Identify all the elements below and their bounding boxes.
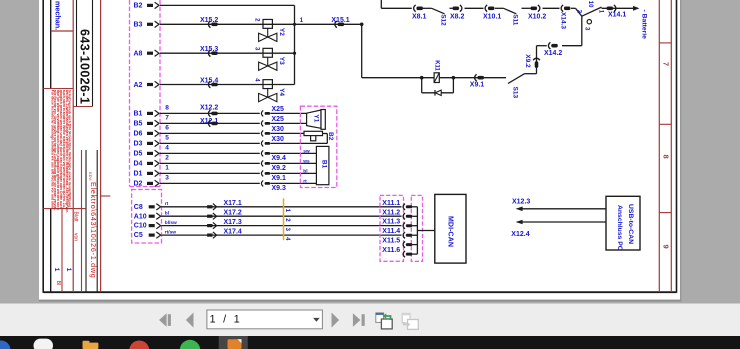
svg-text:643-10026-1: 643-10026-1 [77,29,91,104]
wire C10 row [162,225,402,227]
solenoid valve Y2 [263,19,272,28]
svg-text:D1: D1 [134,171,143,178]
taskbar [0,336,740,349]
svg-text:rt/sw: rt/sw [165,230,176,236]
svg-text:Y3: Y3 [278,57,285,65]
svg-text:D4: D4 [134,161,143,168]
svg-text:C8: C8 [134,204,143,211]
svg-text:X9.2: X9.2 [272,165,287,172]
svg-text:S11: S11 [512,14,519,26]
next page button [332,313,340,328]
svg-text:X9.1: X9.1 [470,82,485,89]
connector X17.4 [207,234,212,237]
svg-text:X8.1: X8.1 [412,14,427,21]
svg-text:Schutzvermerk nach DIN 34 beac: Schutzvermerk nach DIN 34 beachten. Weit… [68,90,72,208]
node diode right [452,76,456,80]
taskbar red app icon [129,341,149,349]
connector X17.2 [207,215,212,218]
svg-text:EDV:: EDV: [88,172,93,181]
svg-text:X30: X30 [272,136,285,143]
taskbar blue app icon [0,341,11,349]
svg-text:C5: C5 [134,232,143,239]
svg-text:1: 1 [165,164,169,171]
svg-text:A2: A2 [134,82,143,89]
toolbar background [0,304,740,337]
wire D3 row to buzzer [270,142,327,144]
wire C5 row [162,234,402,236]
svg-text:mechan.: mechan. [53,1,62,30]
dashed box X11 labels [380,195,404,261]
svg-text:B2: B2 [134,3,143,10]
svg-text:X11.5: X11.5 [382,238,400,245]
svg-text:X14.2: X14.2 [544,50,562,57]
first page button [159,313,167,327]
svg-text:X8.2: X8.2 [450,14,465,21]
connector pair row D4 [261,160,263,166]
flyback diode [434,90,436,96]
svg-text:D3: D3 [134,141,143,148]
branch to X14.2 [581,16,583,46]
connector pair row B5 [261,120,263,126]
svg-text:X17.3: X17.3 [224,219,242,226]
svg-text:- Batterie: - Batterie [641,10,648,40]
svg-text:X25: X25 [272,116,285,123]
diode branch wires [452,78,454,93]
wire D4 row [160,162,260,164]
taskbar folder icon [83,341,90,344]
module B1 [316,146,329,184]
svg-text:4: 4 [165,144,169,151]
wire A8 row [160,52,295,54]
svg-text:B1: B1 [320,160,327,169]
wires to horn [270,112,306,114]
wire B5 row [160,122,260,124]
title block red separator lines [72,0,74,292]
svg-text:Y4: Y4 [278,88,285,96]
svg-text:6: 6 [165,124,169,131]
wire D2 row [160,182,260,184]
svg-text:D2: D2 [134,181,143,188]
wires to module B1 [270,152,316,154]
connector X9.2 [533,58,540,60]
solenoid valve Y4 [263,80,272,89]
taskbar green app icon [180,340,200,349]
solenoid valve Y3 [263,48,272,57]
arrow to Batterie [633,6,640,11]
svg-text:X17.2: X17.2 [224,210,242,217]
taskbar white app icon [34,339,54,349]
switch K contact pole [576,8,582,16]
node X15.1 rail [360,23,364,27]
drawing frame right border [676,0,678,293]
svg-text:2: 2 [165,154,169,161]
connector pair row D5 [261,150,263,156]
switch S11 [504,8,517,14]
svg-text:X9.2: X9.2 [524,54,531,68]
connector X17.1 [207,205,212,208]
node rail-A8 [293,52,296,55]
svg-text:B2: B2 [327,132,334,141]
svg-text:10: 10 [587,1,593,8]
svg-text:A8: A8 [134,51,143,58]
svg-text:bl/sw: bl/sw [165,220,177,226]
connector pair row D6 [261,130,263,136]
svg-text:Anschluss PC: Anschluss PC [616,205,623,251]
common rail [294,5,296,84]
open contact 3 [587,20,591,24]
svg-text:B1: B1 [134,111,143,118]
svg-text:X11.6: X11.6 [382,247,400,254]
svg-text:Y2: Y2 [278,28,285,36]
svg-text:7: 7 [662,62,671,66]
previous page button [186,313,194,328]
wire from top rail to relay row [361,24,363,77]
wire X12.3 [518,208,607,210]
svg-text:S12: S12 [440,14,447,26]
drawing frame bottom border [43,291,676,293]
module MDI-CAN [435,194,466,263]
svg-text:Bl: Bl [55,281,61,285]
wire B3 row right of valve [295,23,362,25]
svg-text:X30: X30 [272,126,285,133]
relay coil K11 [434,73,439,83]
sheet table cells [43,208,86,210]
page right shadow edge [680,0,681,301]
wire A2 row [160,84,295,86]
border zone ticks [659,42,671,44]
connector boundary dashed box lower [132,190,162,244]
svg-text:X12.3: X12.3 [512,199,530,206]
svg-text:USB-to-CAN: USB-to-CAN [627,204,634,244]
wire D5 row [160,152,260,154]
svg-text:Y1: Y1 [313,114,320,122]
connector boundary dashed box upper [130,0,161,187]
border column red lines [658,0,660,292]
potential divider orange line [283,198,285,240]
wire C8 row [162,206,402,208]
svg-text:1: 1 [65,268,72,272]
page combobox [207,310,323,329]
svg-text:1 / 1: 1 / 1 [210,314,242,326]
svg-text:X11.4: X11.4 [382,228,400,235]
svg-text:X14.1: X14.1 [608,11,626,18]
wire B3 row [160,23,295,25]
wire B2 to rail [160,4,295,6]
svg-text:X14.3: X14.3 [560,12,567,29]
svg-text:X17.4: X17.4 [224,229,242,236]
svg-text:bl: bl [165,211,169,217]
wire from top into chain [380,0,382,8]
svg-text:D6: D6 [134,131,143,138]
module USB-to-CAN [606,196,640,250]
drawing frame left border [42,0,44,293]
next view icon (disabled) [402,313,410,323]
svg-text:X17.1: X17.1 [224,200,242,207]
svg-text:Blatt: Blatt [73,212,79,223]
switch blade [582,7,602,16]
switch S13 [508,74,525,84]
svg-text:K11: K11 [433,60,439,71]
svg-text:MDI-CAN: MDI-CAN [446,216,453,247]
svg-text:X11.2: X11.2 [382,209,400,216]
wire D3 row [160,142,260,144]
wire to X14.1 [602,7,634,9]
svg-text:B3: B3 [134,22,143,29]
wire down to X9.2 [536,46,538,62]
svg-text:X10.2: X10.2 [528,14,546,21]
svg-text:7: 7 [165,114,169,121]
svg-text:Elektro\643\10026-1.dwg: Elektro\643\10026-1.dwg [89,182,98,278]
svg-text:5: 5 [165,134,169,141]
svg-text:X25: X25 [272,106,285,113]
last page button [353,313,361,327]
dashed box around Y1 B2 B1 [300,106,336,187]
svg-text:X9.3: X9.3 [272,185,287,192]
horn Y1 [307,110,321,128]
svg-text:X9.1: X9.1 [272,175,287,182]
svg-text:X11.3: X11.3 [382,219,400,226]
svg-text:X11.1: X11.1 [382,200,400,207]
svg-text:S13: S13 [511,87,518,99]
svg-text:8: 8 [165,104,169,111]
svg-text:C10: C10 [134,223,147,230]
buzzer B2 [304,131,323,135]
X11 bus [416,207,418,254]
dashed box X11 contacts [411,195,422,261]
wire D6 row [160,132,260,134]
svg-text:X10.1: X10.1 [483,14,501,21]
svg-text:B5: B5 [134,121,143,128]
svg-text:X9.4: X9.4 [272,155,287,162]
wire to buzzer plate [270,132,304,134]
switch S12 [432,8,445,14]
svg-text:X12.4: X12.4 [511,231,529,238]
connector X17.3 [207,224,212,227]
svg-text:von: von [73,233,79,241]
connector pair row D3 [261,140,263,146]
title block red line right [100,0,102,292]
title block black column lines [85,150,87,292]
previous view icon [376,313,384,323]
connector pair row D1 [261,170,263,176]
wire B1 row [160,112,260,114]
wire A10 row [162,215,402,217]
wire D1 row [160,172,260,174]
svg-text:9: 9 [662,245,671,249]
connector pair row D2 [261,180,263,186]
node rail-B3 [293,23,296,26]
white schematic page [39,0,680,301]
node diode left [420,76,424,80]
title block inner black column line [50,0,52,89]
svg-text:8: 8 [662,155,671,159]
svg-text:D5: D5 [134,151,143,158]
svg-text:rt: rt [165,201,169,207]
svg-text:A10: A10 [134,213,147,220]
connector pair row B1 [261,110,263,116]
svg-text:1: 1 [53,268,60,272]
svg-text:3: 3 [165,174,169,181]
wire X12.4 [518,221,607,223]
taskbar active app tile [219,336,248,349]
page bottom shadow edge [39,300,682,302]
